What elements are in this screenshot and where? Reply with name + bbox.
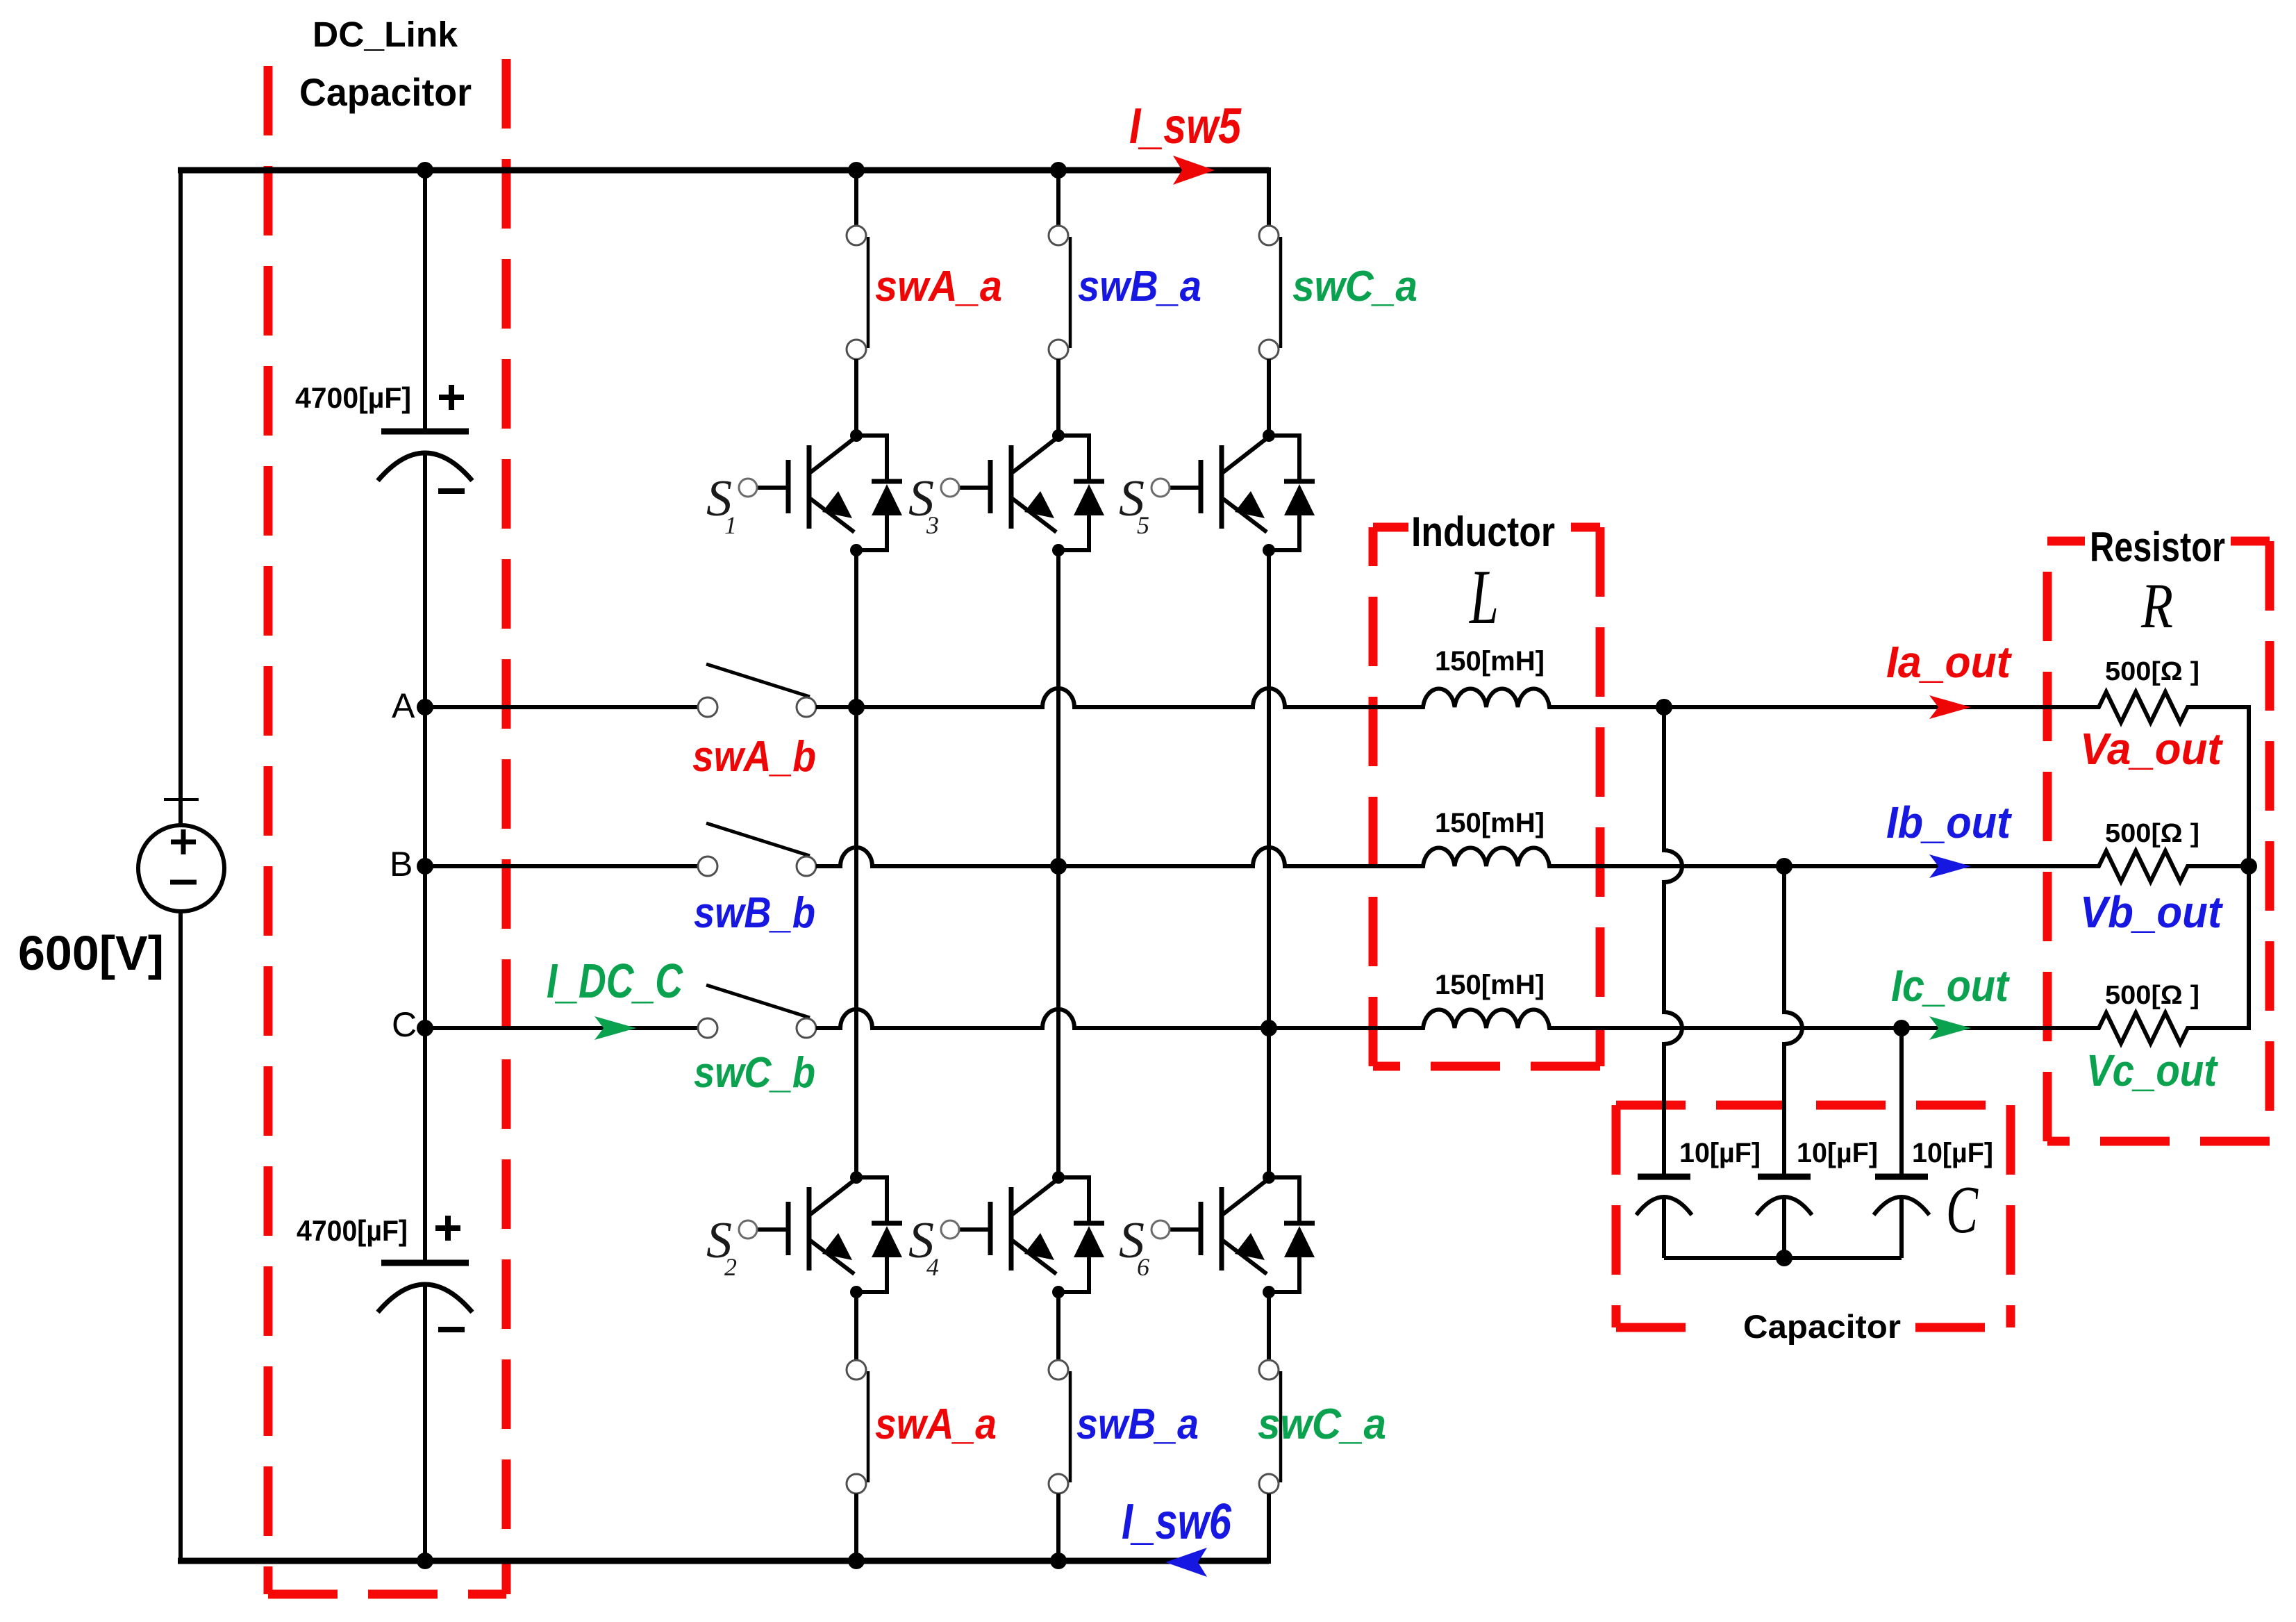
svg-text:10[µF]: 10[µF] [1679, 1138, 1761, 1168]
wire: right output rail joining the three resistors [2247, 705, 2251, 1030]
svg-text:L: L [1469, 554, 1499, 640]
wire: leg x=1233 top rail to upper switch [854, 167, 858, 226]
capacitor C_dc2 4700uF (lower) [378, 1216, 472, 1330]
svg-text:150[mH]: 150[mH] [1435, 646, 1545, 677]
wire: IGBT S2 to lower switch [854, 1292, 858, 1360]
wire: left wire from top rail to source [178, 167, 183, 825]
transistor S5 (IGBT with antiparallel diode) [1119, 429, 1315, 556]
svg-text:DC_Link: DC_Link [313, 15, 458, 54]
svg-text:Ia_out: Ia_out [1886, 637, 2013, 687]
svg-text:swA_a: swA_a [875, 1400, 997, 1448]
svg-text:Vb_out: Vb_out [2080, 887, 2224, 937]
svg-text:10[µF]: 10[µF] [1912, 1138, 1993, 1168]
wire: upper switch to IGBT S3 [1056, 359, 1060, 436]
junction: phase C at capacitor branch C [1893, 1020, 1910, 1036]
svg-text:1: 1 [724, 511, 737, 539]
ideal switch swB_b (horizontal, in phase line) [698, 823, 816, 876]
svg-text:swB_a: swB_a [1078, 263, 1201, 311]
svg-text:swC_b: swC_b [694, 1049, 815, 1097]
Resistor dashed region box [2047, 541, 2270, 1141]
wire: phase A line with hops over legs B,C, inductor coil and resistor [816, 688, 2249, 722]
wire: phase C from node C to switch swC_b [425, 1026, 699, 1030]
wire: lower switch to bottom rail [854, 1493, 858, 1564]
current arrow I_DC_C [594, 1016, 636, 1040]
wire: top DC rail [178, 167, 1269, 174]
svg-text:Vc_out: Vc_out [2086, 1045, 2218, 1095]
ideal switch swB_a (upper) (vertical) [1049, 226, 1070, 359]
svg-text:swA_a: swA_a [875, 263, 1002, 311]
junction: phase A at leg A [848, 699, 865, 715]
svg-text:swC_a: swC_a [1292, 263, 1417, 311]
ideal switch swC_a (lower) (vertical) [1259, 1360, 1281, 1493]
svg-text:Va_out: Va_out [2080, 724, 2224, 774]
svg-text:Ib_out: Ib_out [1886, 797, 2013, 847]
transistor S6 (IGBT with antiparallel diode) [1119, 1171, 1315, 1298]
wire: DC-link branch top [423, 167, 427, 431]
current arrow Ib_out [1929, 854, 1971, 878]
capacitor Ca 10uF [1636, 1177, 1692, 1215]
svg-text:I_DC_C: I_DC_C [547, 954, 683, 1008]
ideal switch swA_a (lower) (vertical) [847, 1360, 868, 1493]
svg-text:600[V]: 600[V] [18, 926, 164, 980]
svg-text:I_sw6: I_sw6 [1122, 1494, 1232, 1550]
wire: lower switch to bottom rail [1267, 1493, 1271, 1564]
svg-text:Ic_out: Ic_out [1891, 961, 2010, 1011]
svg-text:R: R [2140, 570, 2173, 641]
ideal switch swA_a (upper) (vertical) [847, 226, 868, 359]
Inductor dashed region box [1373, 527, 1600, 1066]
ideal switch swB_a (lower) (vertical) [1049, 1360, 1070, 1493]
svg-text:C: C [392, 1005, 417, 1044]
svg-text:5: 5 [1137, 511, 1149, 539]
svg-text:swC_a: swC_a [1258, 1400, 1386, 1448]
svg-text:swB_a: swB_a [1076, 1400, 1199, 1448]
svg-text:2: 2 [724, 1253, 737, 1281]
svg-text:Capacitor: Capacitor [299, 70, 472, 114]
svg-text:500[Ω ]: 500[Ω ] [2105, 657, 2199, 686]
capacitor Cc 10uF [1874, 1177, 1929, 1215]
voltage source V1 600[V] [138, 800, 224, 911]
wire: capacitor branch A (hops over phase B and C) [1664, 707, 1682, 1177]
svg-text:500[Ω ]: 500[Ω ] [2105, 981, 2199, 1010]
wire: bottom DC rail [178, 1558, 1269, 1564]
junction: phase B at leg B [1050, 858, 1067, 875]
junction dots on bottom rail [417, 1553, 433, 1569]
transistor S2 (IGBT with antiparallel diode) [706, 1171, 902, 1298]
capacitor Cb 10uF [1756, 1177, 1812, 1215]
svg-text:C: C [1946, 1173, 1979, 1248]
svg-text:150[mH]: 150[mH] [1435, 808, 1545, 838]
svg-text:I_sw5: I_sw5 [1129, 99, 1242, 154]
capacitor C_dc1 4700uF (upper) [378, 385, 472, 491]
ideal switch swA_b (horizontal, in phase line) [698, 664, 816, 717]
wire: phase B from node B to switch swB_b [425, 864, 698, 868]
wire: leg x=1524 top rail to upper switch [1056, 167, 1060, 226]
ideal switch swC_a (upper) (vertical) [1259, 226, 1281, 359]
svg-text:B: B [390, 845, 413, 884]
Capacitor dashed region box [1616, 1105, 2011, 1327]
DC_Link Capacitor dashed region box [268, 59, 506, 1594]
junction: phase C at leg C [1261, 1020, 1277, 1036]
current arrow I_sw5 [1173, 156, 1215, 185]
wire: phase A from node A to switch swA_b [425, 705, 698, 709]
junction: phase A at capacitor branch A [1656, 699, 1672, 715]
svg-text:Capacitor: Capacitor [1743, 1308, 1901, 1345]
wire: lower switch to bottom rail [1056, 1493, 1060, 1564]
svg-text:Resistor: Resistor [2090, 524, 2225, 570]
wire: capacitor bottom bus [1664, 1256, 1902, 1260]
transistor S3 (IGBT with antiparallel diode) [908, 429, 1104, 556]
current arrow I_sw6 [1165, 1548, 1207, 1577]
svg-text:swB_b: swB_b [694, 889, 815, 937]
svg-text:3: 3 [926, 511, 939, 539]
svg-text:6: 6 [1137, 1253, 1149, 1281]
svg-text:500[Ω ]: 500[Ω ] [2105, 819, 2199, 848]
svg-text:4700[µF]: 4700[µF] [295, 381, 411, 414]
wire: upper switch to IGBT S1 [854, 359, 858, 436]
svg-text:swA_b: swA_b [692, 733, 816, 781]
wire: IGBT S4 to lower switch [1056, 1292, 1060, 1360]
transistor S1 (IGBT with antiparallel diode) [706, 429, 902, 556]
wire: phase B line with hop over leg A and leg C, inductor coil and resistor [816, 847, 2249, 882]
ideal switch swC_b (horizontal, in phase line) [698, 985, 816, 1038]
wire: IGBT S5 down through phase lines [1267, 550, 1271, 1177]
wire: capacitor branch C [1899, 1028, 1904, 1177]
wire: phase C line with hops over legs A,B, inductor coil and resistor [816, 1009, 2249, 1043]
wire: left wire from source to bottom rail [178, 911, 183, 1564]
wire: IGBT S3 down through phase lines [1056, 550, 1060, 1177]
transistor S4 (IGBT with antiparallel diode) [908, 1171, 1104, 1298]
svg-text:Inductor: Inductor [1411, 508, 1555, 555]
svg-text:4: 4 [926, 1253, 939, 1281]
svg-text:150[mH]: 150[mH] [1435, 970, 1545, 1000]
wire: upper switch to IGBT S5 [1267, 359, 1271, 436]
svg-text:10[µF]: 10[µF] [1797, 1138, 1878, 1168]
wire: leg x=1827 top rail to upper switch [1267, 167, 1271, 226]
current arrow Ia_out [1929, 695, 1971, 719]
junction dots on top rail [417, 162, 433, 179]
svg-text:4700[µF]: 4700[µF] [297, 1214, 408, 1247]
wire: IGBT S1 down through phase lines [854, 550, 858, 1177]
wire: DC-link branch bottom [423, 1283, 427, 1564]
wire: IGBT S6 to lower switch [1267, 1292, 1271, 1360]
wire: capacitor branch B (hops over phase C) [1784, 866, 1802, 1177]
junction: phase B at capacitor branch B [1776, 858, 1792, 875]
svg-text:A: A [392, 686, 415, 725]
wire: DC-link branch middle (through nodes A,B,C) [423, 452, 427, 1263]
current arrow Ic_out [1929, 1016, 1971, 1040]
